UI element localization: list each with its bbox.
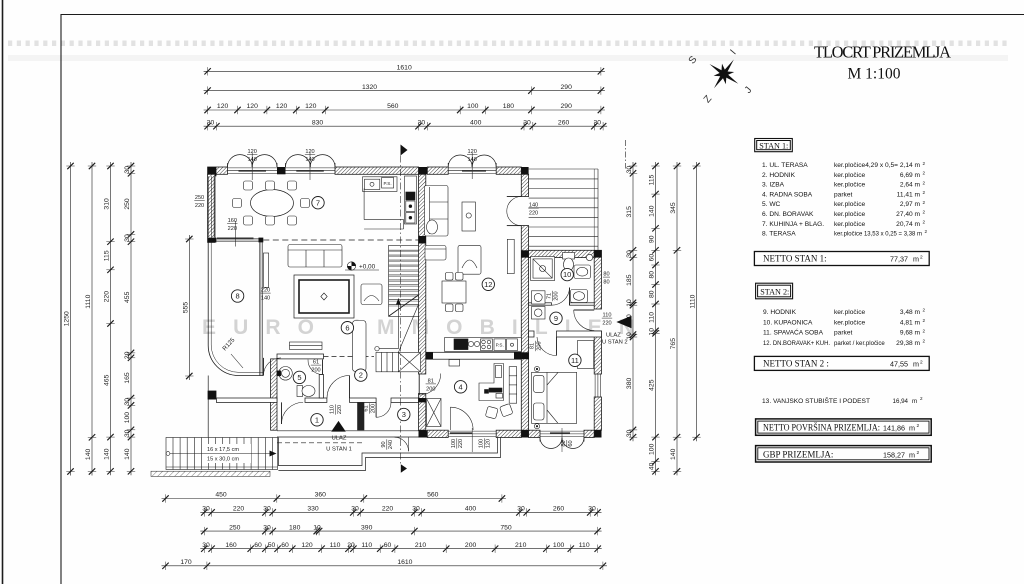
svg-text:ker.pločice: ker.pločice (834, 201, 865, 208)
wall H3 top of bathroom (529, 250, 595, 257)
svg-text:100: 100 (451, 439, 457, 448)
STAN 2 header box (756, 283, 793, 299)
wall V8b room1/room3 dark (357, 402, 364, 430)
svg-text:30: 30 (124, 166, 131, 174)
dimension chain right 30/315/30/185/10/120/10/380/30 (629, 162, 637, 441)
svg-text:30: 30 (124, 398, 131, 406)
svg-text:2,97 m: 2,97 m (900, 201, 921, 208)
kitchen tall unit and oven room7 (405, 176, 417, 224)
tv cabinet room6 (264, 253, 269, 287)
svg-text:210: 210 (415, 542, 427, 549)
dimension chain right 345/765/140 (673, 162, 681, 475)
label 160/220 (227, 218, 237, 232)
NETTO POVRSINA PRIZEMLJA box (756, 419, 932, 435)
junction block H2 / terrace window wall (259, 238, 264, 243)
svg-text:220: 220 (529, 211, 538, 217)
NETTO STAN 2 box (754, 356, 929, 370)
shower bathroom (531, 257, 555, 281)
svg-text:parket / ker.pločice: parket / ker.pločice (834, 340, 885, 347)
kitchen counter room7 horizontal (363, 177, 398, 192)
label 220/140 terrace (260, 288, 270, 302)
washing machine bathroom (532, 291, 546, 304)
watermark faint band top (8, 55, 1008, 61)
south wall segment C (427, 430, 448, 437)
svg-text:20: 20 (347, 542, 355, 549)
svg-text:465: 465 (104, 374, 111, 386)
svg-text:7. KUHINJA + BLAG.: 7. KUHINJA + BLAG. (762, 221, 824, 228)
svg-text:P.S.: P.S. (496, 343, 504, 348)
door to room1 swing arc (282, 402, 304, 424)
svg-text:220: 220 (195, 203, 204, 209)
wall V6 main segment (521, 226, 528, 431)
block V4 south end (419, 430, 428, 437)
east wall V5 segment C (594, 397, 601, 430)
svg-text:220: 220 (104, 291, 111, 303)
entrance apartment1 arrow ULAZ (331, 421, 346, 432)
boiler bathroom (586, 254, 592, 260)
svg-text:390: 390 (361, 524, 373, 531)
porch south edge thin lines (277, 431, 419, 437)
svg-text:765: 765 (670, 338, 677, 350)
external staircase treads (529, 169, 598, 250)
svg-text:120: 120 (248, 149, 257, 155)
room 3 IZBA (398, 408, 410, 420)
door room2 to room4 swing arc (419, 374, 441, 396)
svg-text:830: 830 (312, 119, 324, 126)
svg-text:30: 30 (517, 506, 525, 513)
bedroom door swing arc (537, 337, 557, 356)
svg-text:200: 200 (554, 291, 560, 300)
svg-text:100: 100 (124, 412, 131, 424)
svg-text:140: 140 (529, 203, 538, 209)
rug and coffee table room6 (294, 275, 354, 318)
svg-text:16,94: 16,94 (893, 398, 909, 405)
svg-text:P.S.: P.S. (384, 181, 392, 186)
wall H4 segment C (391, 398, 419, 402)
dimension chain left 30/250/30/455/20/165/30/100/30/140 (127, 162, 135, 475)
svg-text:345: 345 (670, 202, 677, 214)
level marker +0,00 (345, 262, 379, 271)
svg-text:6. DN. BORAVAK: 6. DN. BORAVAK (762, 211, 814, 218)
section marker top (401, 145, 408, 156)
svg-text:2: 2 (923, 180, 926, 185)
svg-text:2: 2 (359, 371, 363, 380)
svg-text:2: 2 (923, 318, 926, 323)
closet room2 by stairs (353, 321, 367, 372)
sofa room12 (425, 186, 449, 237)
wall H4 segment B (350, 398, 377, 402)
svg-text:8: 8 (236, 292, 240, 301)
svg-text:15 x 30,0 cm: 15 x 30,0 cm (207, 457, 239, 463)
block V6 at H7 (521, 352, 528, 359)
svg-text:ker.pločice: ker.pločice (834, 211, 865, 218)
svg-text:120: 120 (305, 103, 317, 110)
center wall V4 upper (419, 174, 426, 374)
watermark dash row top (8, 41, 1007, 47)
dining chairs room7 (233, 181, 310, 225)
WC door swing arc (308, 360, 323, 375)
svg-text:30: 30 (626, 430, 633, 438)
svg-text:60: 60 (649, 254, 656, 262)
svg-text:170: 170 (180, 559, 192, 566)
compass north rose (710, 60, 739, 89)
label main door 110/220 (330, 404, 343, 414)
section line vertical (400, 156, 402, 465)
svg-text:2,64 m: 2,64 m (900, 182, 921, 189)
window sills north wall (239, 170, 487, 172)
svg-text:1250: 1250 (64, 311, 71, 326)
wall V3 west of WC zone (271, 359, 277, 430)
svg-text:20,74 m: 20,74 m (896, 221, 920, 228)
window room4 south wall (448, 431, 496, 437)
terrace west edge inner line (211, 242, 263, 372)
dimension chain left 310/115/220/465/140 (106, 162, 114, 475)
double balcony door room12 arcs (507, 197, 522, 226)
label window W3 (467, 149, 477, 163)
svg-text:140: 140 (104, 448, 111, 460)
svg-text:120: 120 (468, 149, 477, 155)
label window W5 (561, 440, 574, 447)
svg-text:11: 11 (571, 356, 579, 365)
svg-text:5. WC: 5. WC (762, 201, 781, 208)
svg-text:115: 115 (104, 250, 111, 261)
svg-text:6,69 m: 6,69 m (900, 172, 921, 179)
svg-text:120: 120 (276, 103, 288, 110)
window in wall H2 (216, 239, 258, 242)
apartment2 entrance door swing arc (574, 310, 595, 331)
terrace west edge with R125 rounded corner (208, 242, 263, 375)
wall shelf room12 (507, 239, 514, 273)
svg-text:110: 110 (361, 542, 372, 549)
dining table room7 (251, 190, 294, 217)
svg-text:ker.pločice: ker.pločice (834, 182, 865, 189)
svg-text:5: 5 (297, 373, 301, 382)
svg-text:310: 310 (104, 198, 111, 210)
staircase walk line with arrow (375, 298, 401, 351)
svg-text:71: 71 (547, 293, 553, 299)
south wall segment F (584, 430, 594, 437)
terrace path outline below building (278, 438, 497, 466)
svg-text:555: 555 (182, 302, 189, 314)
svg-text:90: 90 (381, 441, 387, 447)
svg-text:140: 140 (85, 449, 92, 461)
dashed open-plan divider room7/room6 (263, 239, 418, 241)
svg-text:2: 2 (923, 220, 926, 225)
svg-text:60: 60 (254, 542, 262, 549)
svg-text:2: 2 (920, 255, 923, 261)
window W2 north wall (286, 168, 336, 174)
wardrobe bedroom (578, 341, 594, 369)
label entrance2 110/220 (602, 313, 612, 327)
svg-text:30: 30 (626, 250, 633, 258)
svg-text:30: 30 (202, 542, 210, 549)
svg-text:30: 30 (124, 234, 131, 242)
svg-text:80: 80 (603, 272, 609, 278)
svg-text:140: 140 (305, 157, 314, 163)
cabinet room4 (449, 360, 460, 367)
south window centerlines (472, 428, 562, 452)
window W1 north wall (228, 168, 278, 174)
ottoman room12 (425, 246, 446, 261)
entrance apartment2 arrow ULAZ (616, 316, 631, 329)
svg-text:120: 120 (247, 103, 259, 110)
label WC door 61/200 (311, 360, 321, 374)
svg-text:16 x 17,5 cm: 16 x 17,5 cm (207, 447, 239, 453)
bed room11 (532, 372, 577, 423)
svg-text:260: 260 (553, 506, 565, 513)
svg-text:220: 220 (382, 506, 394, 513)
svg-text:STAN 1:: STAN 1: (759, 141, 788, 150)
svg-text:30: 30 (594, 119, 602, 126)
svg-text:ker.pločice: ker.pločice (834, 319, 865, 326)
svg-text:220: 220 (458, 439, 464, 448)
svg-text:290: 290 (561, 84, 573, 91)
svg-text:81: 81 (530, 343, 536, 349)
svg-text:30: 30 (588, 506, 596, 513)
svg-text:2: 2 (923, 161, 926, 166)
dimension chain top 120s/560/100/180/290 (204, 106, 605, 114)
shutter arcs window W3 (448, 155, 496, 167)
svg-text:TLOCRT PRIZEMLJA: TLOCRT PRIZEMLJA (814, 43, 951, 62)
dimension chain right 1110 (692, 162, 700, 441)
svg-text:61: 61 (364, 405, 370, 411)
label room4 window a (451, 438, 464, 448)
south window sills dark (450, 432, 570, 434)
svg-text:455: 455 (124, 291, 131, 303)
entrance staircase (166, 438, 278, 470)
label room4 window b (479, 438, 492, 448)
svg-text:2: 2 (917, 450, 920, 456)
sofa room6 (288, 245, 342, 268)
svg-text:100: 100 (649, 443, 656, 455)
svg-text:10: 10 (563, 270, 571, 279)
wall H9 segment east (557, 331, 602, 337)
svg-text:8. TERASA: 8. TERASA (762, 231, 796, 238)
window wall V2 terrace/living (259, 242, 262, 375)
block V6 at bath top wall (521, 250, 528, 257)
entrance stairs text panel (205, 444, 251, 463)
washbasin WC room5 (277, 367, 292, 381)
junction block V3/H4 (271, 398, 277, 402)
svg-text:400: 400 (465, 506, 477, 513)
room 8 TERASA (231, 290, 243, 302)
storage under stairs with cross (398, 352, 420, 371)
svg-text:425: 425 (649, 379, 656, 391)
svg-text:30: 30 (626, 166, 633, 174)
svg-text:185: 185 (626, 274, 633, 286)
room 5 WC (293, 371, 305, 383)
svg-text:GBP PRIZEMLJA:: GBP PRIZEMLJA: (763, 449, 833, 459)
room 11 SPAVACA SOBA (569, 354, 581, 366)
svg-text:10. KUPAONICA: 10. KUPAONICA (763, 319, 813, 326)
dashed line U STAN 1 (277, 442, 362, 444)
svg-text:140: 140 (248, 157, 257, 163)
sheet left border line (2, 0, 4, 584)
svg-text:2: 2 (923, 339, 926, 344)
junction block north wall / center wall (419, 167, 428, 174)
path direction arrow (401, 464, 407, 472)
svg-text:60: 60 (384, 542, 392, 549)
svg-text:1110: 1110 (85, 294, 92, 308)
svg-text:140: 140 (649, 205, 656, 217)
shutter arcs window W1 (228, 155, 278, 167)
svg-text:STAN 2:: STAN 2: (760, 288, 789, 297)
label door 61/200 room3 (364, 403, 377, 413)
svg-text:200: 200 (426, 386, 435, 392)
svg-text:M 1:100: M 1:100 (848, 66, 901, 83)
block V6 south end (521, 430, 528, 437)
wall H9 segment west (529, 331, 534, 337)
svg-text:80: 80 (561, 440, 567, 446)
svg-text:30: 30 (351, 506, 359, 513)
svg-text:2: 2 (917, 423, 920, 429)
svg-text:120: 120 (301, 542, 313, 549)
label window W2 (305, 149, 315, 163)
label door 90/240 (381, 439, 394, 449)
junction block north wall / wall V6 (521, 167, 528, 174)
svg-text:30: 30 (207, 119, 215, 126)
exterior north wall segment A (208, 167, 228, 174)
exterior north wall segment C2 (427, 167, 448, 174)
room 7 KUHINJA+BLAG. (312, 197, 324, 209)
interior staircase upper flight (389, 245, 419, 316)
svg-text:3: 3 (402, 410, 406, 419)
east wall V5 segment B (594, 331, 601, 374)
bedroom east window (595, 374, 601, 397)
washbasin bathroom (574, 265, 591, 279)
label 250/220 west window (194, 195, 204, 209)
svg-text:27,40 m: 27,40 m (896, 211, 920, 218)
svg-text:140: 140 (670, 448, 677, 460)
south wall segment D (496, 430, 521, 437)
wall H8 segment west (529, 303, 552, 305)
svg-text:m: m (909, 450, 915, 459)
svg-text:200: 200 (537, 341, 543, 350)
porch column SW (208, 391, 217, 400)
door terrace to hallway with swing arc (264, 358, 282, 376)
svg-text:220: 220 (602, 321, 611, 327)
window west wall 250/220 (209, 176, 215, 237)
svg-text:180: 180 (503, 103, 515, 110)
toilet bathroom (563, 253, 575, 272)
window W5 bedroom south wall (540, 431, 584, 437)
office chairs room4 (485, 404, 513, 419)
bathroom door swing arc (552, 288, 570, 306)
desk room4 L-shape (479, 364, 504, 401)
svg-text:80: 80 (649, 290, 656, 298)
retaining hatch strip below entrance stairs (151, 471, 270, 476)
window W3 north wall (448, 168, 496, 174)
svg-text:220: 220 (337, 405, 343, 414)
terrace path outline inner line (278, 438, 500, 471)
corner block NW (208, 167, 217, 176)
kitchen P.S. box room7 (382, 178, 394, 189)
exterior north wall segment C (335, 167, 419, 174)
svg-text:12. DN.BORAVAK+ KUH.: 12. DN.BORAVAK+ KUH. (763, 340, 830, 347)
svg-text:120: 120 (486, 439, 492, 448)
svg-text:250: 250 (124, 198, 131, 210)
svg-text:1: 1 (315, 415, 319, 424)
svg-text:4,81 m: 4,81 m (900, 319, 921, 326)
door room2 to room3 swing arc (376, 402, 391, 417)
svg-text:240: 240 (388, 440, 394, 449)
dimension chain bottom 450/360/560 (162, 494, 506, 502)
svg-text:450: 450 (215, 492, 227, 499)
svg-text:2. HODNIK: 2. HODNIK (762, 172, 796, 179)
svg-text:4: 4 (459, 382, 463, 391)
svg-text:U STAN 2: U STAN 2 (602, 340, 628, 346)
svg-text:11. SPAVAĆA SOBA: 11. SPAVAĆA SOBA (763, 328, 824, 337)
svg-text:m: m (912, 398, 917, 405)
block V5 north end (594, 250, 601, 257)
svg-text:2: 2 (925, 229, 928, 234)
svg-text:ker.pločice: ker.pločice (834, 309, 865, 316)
wall junction block between W1 W2 (277, 167, 286, 174)
svg-text:110: 110 (579, 542, 590, 549)
svg-text:m: m (913, 360, 919, 369)
wall H6 top of WC (277, 354, 324, 359)
label bath door 71/200 (547, 291, 560, 301)
svg-text:NETTO STAN 1:: NETTO STAN 1: (763, 254, 827, 264)
svg-text:2: 2 (920, 396, 923, 401)
svg-text:+0,00: +0,00 (359, 264, 376, 271)
svg-text:40: 40 (649, 462, 656, 470)
svg-text:60: 60 (568, 440, 574, 446)
svg-text:2: 2 (920, 360, 923, 366)
svg-text:ker.pločice 13,53 x 0,25 = 3,3: ker.pločice 13,53 x 0,25 = 3,38 m (834, 231, 922, 238)
svg-text:47,55: 47,55 (890, 360, 908, 369)
room 10 KUPAONICA (561, 268, 573, 280)
center wall V4 lower (419, 394, 426, 431)
window centerlines north wall (252, 153, 472, 181)
dimension chain top 1320/290 (204, 86, 605, 94)
east wall V5 segment A (594, 250, 601, 309)
svg-text:110: 110 (603, 313, 612, 319)
wall V6 upper segment (521, 174, 528, 196)
svg-text:m: m (909, 424, 915, 433)
window H2 centerline (235, 221, 237, 247)
svg-text:110: 110 (330, 542, 341, 549)
svg-text:250: 250 (195, 195, 204, 201)
room 2 HODNIK (355, 369, 367, 381)
svg-text:10: 10 (626, 299, 633, 307)
svg-text:380: 380 (626, 378, 633, 390)
wall H4 porch rail west (216, 398, 277, 402)
svg-text:ULAZ: ULAZ (332, 436, 347, 442)
svg-text:13. VANJSKO STUBIŠTE I PODEST: 13. VANJSKO STUBIŠTE I PODEST (762, 396, 870, 405)
dimension chain right 115/140/90/60/80/80/110/10/425/100/40 (651, 162, 659, 475)
svg-text:12: 12 (484, 280, 492, 289)
svg-text:U STAN 1: U STAN 1 (326, 447, 352, 453)
dimension chain bottom 30/220/30/330/30/220/30/400/30/260/30 (200, 508, 601, 516)
compass letters S I Z J (687, 48, 755, 105)
room 4 RADNA SOBA (454, 381, 466, 393)
svg-text:750: 750 (500, 524, 512, 531)
svg-text:m: m (913, 255, 919, 264)
dimension chain left 1110/140 (88, 162, 96, 476)
dimension chain bottom 30/160/60/50/60/120/110/20/110/60/210/200/210/100/110 (200, 545, 601, 553)
svg-text:81: 81 (428, 378, 434, 384)
wall H7 room12/room4 (426, 352, 522, 359)
svg-text:180: 180 (289, 524, 301, 531)
svg-text:140: 140 (261, 296, 270, 302)
svg-text:30: 30 (263, 506, 271, 513)
armchair room6 (361, 284, 382, 305)
label window stairs 140/220 (528, 203, 538, 217)
svg-text:1. UL. TERASA: 1. UL. TERASA (762, 162, 808, 169)
staircase lower flight diagonal (398, 305, 418, 353)
svg-text:2: 2 (923, 328, 926, 333)
